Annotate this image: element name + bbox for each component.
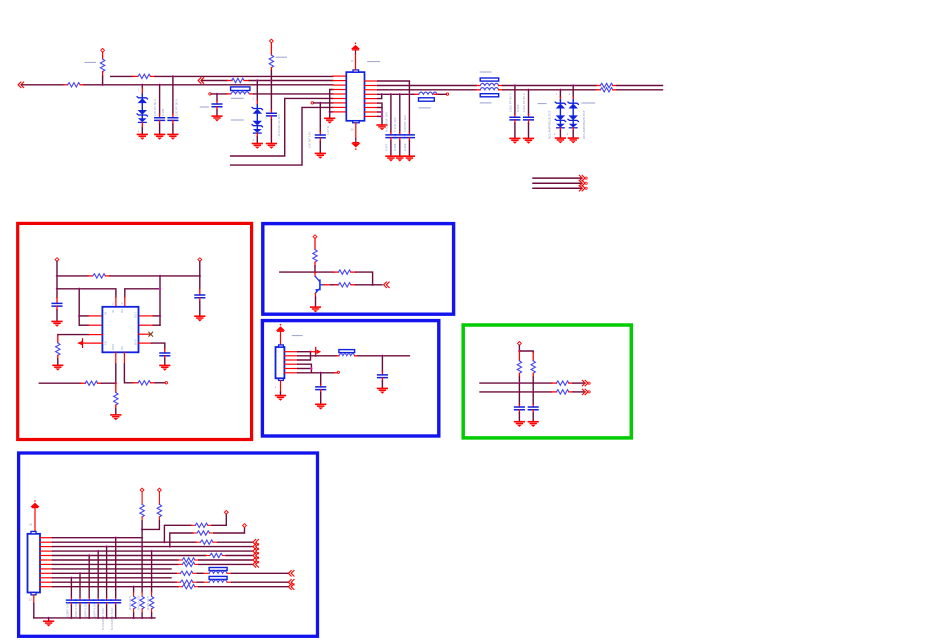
wire row5 to IC [254,93,333,95]
wire U2 bottom pin FB [123,352,125,364]
highlight box blue 3 [19,453,318,636]
node VIN a [56,275,58,277]
svg-text:RCLAMP0502B.TCT: RCLAMP0502B.TCT [582,110,586,139]
wire right vertical net [159,276,161,325]
wire main bus to IC [84,84,333,86]
wire bottom net left [39,382,81,384]
wire bottom ground bus [34,617,155,619]
svg-text:2: 2 [567,132,569,136]
svg-text:20: 20 [351,128,355,132]
ground C17 [528,421,539,427]
power symbol down GND arrow [351,142,360,150]
svg-text:0.1UF 16V: 0.1UF 16V [393,116,397,132]
label dash D4 [582,102,594,104]
highlight box blue 2 [262,321,438,436]
capacitor C14 [381,356,383,372]
svg-text:N.C/100NF 5.0V: N.C/100NF 5.0V [110,608,114,630]
svg-text:C403: C403 [516,104,520,112]
svg-text:N.C/100NF 5.0V: N.C/100NF 5.0V [101,608,105,630]
capacitor C11 (input) [56,298,58,304]
common-mode choke T1 [480,78,499,81]
ground C9 [509,138,520,144]
label dash R5 [276,56,287,58]
wire second row to IC [155,75,332,77]
wire pin6 [298,372,335,374]
svg-text:GND: GND [111,344,115,350]
svg-text:IN: IN [111,310,115,313]
resistor R27 (row11 series) [176,581,180,583]
off-page connector row11 [288,579,294,585]
svg-text:100 PF 50 V: 100 PF 50 V [153,98,157,116]
svg-text:1000PF 16V: 1000PF 16V [403,114,407,132]
svg-text:2: 2 [112,301,114,305]
svg-text:1: 1 [138,87,140,91]
svg-text:N.C/100 uF 50V: N.C/100 uF 50V [277,113,281,136]
op-amp U2 body [102,307,138,353]
wire row5 [53,555,206,557]
wire U2 top pin8 red [124,297,126,307]
resistor R3 (series, second row) [133,75,138,77]
resistor R23 (row5 series) [206,555,210,557]
wire SDA out [573,391,585,393]
ground C11 [51,321,62,327]
wire bus lower to choke [378,89,476,91]
ground C2 [167,134,178,140]
ground C1 [154,134,165,140]
svg-text:RCLAMP0502B.TCT: RCLAMP0502B.TCT [548,110,552,139]
svg-text:C105: C105 [161,108,165,116]
node pin1 [309,351,311,353]
svg-text:N.C/10UF 16V: N.C/10UF 16V [384,111,388,132]
off-page connector row4 [253,548,259,554]
off-page connector row3 [198,78,204,84]
wire top net [57,275,88,277]
resistor R2 (pull-up, vertical) [101,48,105,52]
power symbol J2 [30,500,39,508]
wire emitter [315,293,317,297]
node right vert a [159,288,161,290]
capacitor C3 (bulk) [270,110,272,113]
node SDA [532,391,534,393]
power symbol VCC [351,43,360,51]
svg-text:100 NF 16V: 100 NF 16V [308,131,312,148]
wire pullup vertical [141,529,143,592]
wire after FB1 [439,93,447,95]
capacitor C12 (output) [199,289,201,295]
power pin diamond Q net [313,235,317,239]
wire stub out 2 [533,182,582,184]
wire collector bus [280,271,334,273]
node GND net [115,382,117,384]
svg-text:EN: EN [104,341,108,345]
wire row1 [53,537,143,539]
off-page connector SCL [582,380,590,386]
pin end node pin6 [334,372,337,374]
off-page connector base [384,282,390,288]
ground C15 [315,404,326,410]
resistor R33 (network c) [151,551,153,592]
resistor R32 (network b) [133,587,135,592]
label dash FB1 [419,107,430,109]
wire base net out [356,284,382,286]
pin end node row5 [209,93,211,95]
capacitor C23 [70,578,72,598]
IC U1 ground pin 20 [355,123,357,139]
wire row7 [314,102,333,104]
svg-text:OUT: OUT [120,307,124,313]
resistor R29 (network a) [141,592,143,596]
TVS diode D2 [256,81,258,101]
off-page connector out 1 [579,175,587,181]
svg-text:220PF 5.0V: 220PF 5.0V [66,602,70,618]
off-page connector out 2 [579,180,587,186]
svg-text:C408: C408 [393,143,397,151]
capacitor C8 [408,94,410,132]
capacitor C22 [79,573,81,597]
wire row7 [53,563,179,565]
wire row3 [202,80,227,82]
resistor R4 (series row3) [227,80,232,82]
svg-text:100 PF 50 V: 100 PF 50 V [175,98,179,116]
capacitor C7 [399,94,401,132]
resistor R15 (base series) [335,284,339,286]
wire U2 left pin stubs [79,315,89,317]
svg-text:1: 1 [253,97,255,101]
wire IN pin2 bend [57,289,116,297]
svg-text:2: 2 [253,138,255,142]
ground C12 [194,315,205,321]
power pin VIN diamond [55,258,59,262]
wire stub out 3 [533,187,582,189]
off-page connector out 3 [579,185,587,191]
node C5 top [319,102,321,104]
wire VIN vertical [56,261,58,297]
wire bus lower after choke [503,89,596,91]
wire row12 [53,586,179,588]
wire pin2 to bead [298,355,337,357]
resistor R11 (bottom series) [81,382,86,384]
ferrite bead FB1 [415,93,419,95]
power pin diamond B [243,524,247,528]
label dash L1 a [231,97,243,99]
wire U2 bottom pin GND [115,352,117,364]
resistor R22 (row2 series) [196,541,200,543]
label dash U1 power [368,61,380,63]
highlight box red [18,223,252,439]
wire row4 gnd stub [330,90,333,118]
pin end node row7 [311,102,313,104]
ground C13 [159,365,170,371]
resistor R9 (EN pulldown) [57,336,59,343]
node left branch [78,288,80,290]
ground Q1 emitter [310,306,321,312]
connector J1 body [276,347,285,378]
svg-text:24: 24 [29,523,33,527]
svg-text:0.47 R: 0.47 R [326,125,330,135]
capacitor C10 [528,90,530,115]
svg-text:20PF 5.0V: 20PF 5.0V [92,603,96,617]
label dash T1 top [480,71,491,73]
TVS diode D3 [559,90,561,97]
resistor R28 (row12 series) [178,586,182,588]
label dash J1 [292,335,302,337]
wire upper bus end [617,85,663,87]
node row4 d [408,93,410,95]
wire row7 stub [378,107,382,109]
wire row9 stub [330,111,333,113]
wire net B (IC pin8 loop) [231,107,333,165]
capacitor C1 [158,84,160,86]
wire VOUT vertical [199,261,201,289]
wire EN corner [58,335,89,336]
wire R17 lower [532,392,534,405]
port arrow right [311,351,315,353]
ground R12 [110,414,121,420]
wire pin1-pin3 tie [298,352,311,360]
resistor R17 (pull-up 2) [532,353,534,361]
ground C8 [404,155,415,161]
svg-text:2: 2 [138,129,140,133]
ground C3 [266,143,277,149]
capacitor C13 (bypass) [164,349,166,353]
ground left of IC [324,118,335,124]
ground D1 [137,134,148,140]
wire base to resistor [331,284,339,286]
resistor R30 (branch A) [191,524,195,526]
node C9 [514,84,516,86]
svg-text:13: 13 [29,598,33,602]
wire branch A [164,525,191,542]
capacitor C17 [532,405,534,408]
ground R9 [52,365,63,371]
label dash C4 [200,106,208,108]
IC U1 power pin 8 [355,50,357,54]
wire row3 to IC [249,80,333,82]
capacitor C20 [97,551,99,597]
ferrite bead FB2 (row9) [203,572,209,574]
port arrow left (bypass) [82,339,84,348]
wire row11 [53,581,177,583]
label dash R2 [85,61,96,63]
node power [518,350,520,352]
wire row4 [53,550,253,552]
wire U2 right pin stubs [153,315,160,317]
capacitor C18 [115,538,117,598]
capacitor C15 [320,373,322,384]
wire row9 [53,572,177,574]
highlight box green [463,325,631,438]
wire R21 to join [142,521,159,530]
ferrite bead FB3 (row11) [203,581,209,583]
node R5 bottom [270,79,272,81]
wire pin1 [298,351,311,353]
capacitor C21 [88,556,90,598]
inductor L2 (ferrite bead) [336,355,339,357]
svg-text:R423 22.5: R423 22.5 [146,596,150,610]
node pins45 [310,367,312,369]
off-page connector row9 [288,571,294,577]
svg-text:R422 22.5: R422 22.5 [128,596,132,610]
node ground [47,617,49,619]
resistor R21 (pull-up b) [158,488,162,492]
ground D4 [568,137,579,143]
svg-text:1: 1 [275,385,277,389]
wire R16 lower [518,383,520,404]
svg-text:1: 1 [568,92,570,96]
resistor R24 (row6 series) [178,559,182,561]
wire OUT pin bend [125,289,160,297]
wire right row1 bend [378,81,410,94]
no-connect X pin [139,333,150,335]
capacitor C5 [319,103,321,132]
svg-text:OUT: OUT [134,312,138,318]
connector J1 pins [284,352,297,373]
wire J1 ground pin [280,380,282,392]
node row8 [381,111,383,113]
off-page connector row7 [253,562,259,568]
capacitor C9 [514,86,516,115]
power pin VOUT diamond [198,258,202,262]
wire U2 top pin2 red [115,297,117,307]
wire pins 4-5 tie [298,364,312,373]
wire SCL out [573,382,585,384]
ground C10 [523,138,534,144]
wire row5 tie [378,94,382,98]
node C14 [381,355,383,357]
ground C14 [377,388,388,394]
wire row3 [53,546,253,548]
off-page connector row2 [253,539,259,545]
capacitor C16 [518,405,520,408]
node D4 [572,84,574,86]
TVS diode D1 [141,84,143,86]
resistor R1 (series, main bus) [64,84,68,86]
node D3 [559,89,561,91]
IC U1 pins right [365,81,378,116]
label dash T1 bottom [480,102,491,104]
wire to R17 [519,351,533,353]
power symbol J1 [276,324,285,332]
node row4 c [399,93,401,95]
svg-text:IN: IN [104,312,108,315]
label dash L1 b [231,119,243,121]
resistor R6 (series upper bus) [596,85,600,87]
TVS diode D4 [572,86,574,98]
node cap out [199,275,201,277]
resistor R20 (pull-up a) [140,488,144,492]
svg-text:2: 2 [554,132,556,136]
capacitor C4 [216,94,218,101]
wire row6 [53,559,179,561]
wire row9 stub [378,115,382,117]
svg-text:C407: C407 [384,143,388,151]
ground J1 [275,395,286,401]
svg-text:1: 1 [556,92,558,96]
node base net [371,284,373,286]
wire after L2 [358,355,410,357]
svg-text:8: 8 [121,301,123,305]
svg-text:NC: NC [120,346,124,350]
off-page connector row6 [253,557,259,563]
capacitor C6 [390,94,392,132]
wire stub out 1 [533,177,582,179]
ground C4 [211,115,222,121]
svg-text:1000 PF 50 V: 1000 PF 50 V [509,92,513,112]
wire bus upper after choke [503,85,596,87]
node left vert [78,315,80,317]
node right vert b [159,315,161,317]
wire bus upper to choke [378,85,476,87]
resistor R16 (pull-up 1) [518,351,520,361]
node row9 [381,115,383,117]
resistor R18 (SCL series) [552,382,557,384]
highlight box blue 1 [263,224,454,315]
ground C16 [514,421,525,427]
wire BYP right [139,342,152,344]
svg-text:C409: C409 [403,143,407,151]
capacitor C19 [106,547,108,598]
ground C5 [315,153,326,159]
node C4 top [216,93,218,95]
off-page connector row5 [253,553,259,559]
ground C6 [385,155,396,161]
ground C7 [394,155,405,161]
wire J2 bottom pin [33,595,35,604]
label dash caps [538,103,546,105]
node junction R2 bottom [101,84,103,86]
svg-text:R421A 100: R421A 100 [136,595,140,610]
svg-text:8: 8 [351,59,353,63]
resistor R26 (row9 series) [176,572,180,574]
off-page connector SDA [582,389,590,395]
ground D3 [555,137,566,143]
wire row2 [53,541,197,543]
wire SDA bus [480,391,552,393]
ground J2 [48,618,50,621]
ground right of IC [376,124,387,130]
resistor R7 (series lower bus) [596,89,600,91]
resistor R10 (FB series) [133,382,138,384]
label dash R6 R7 [590,102,595,104]
power pin diamond I2C [518,342,522,346]
resistor R14 (upper series) [334,271,339,273]
wire SCL bus [480,382,552,384]
node VIN b [56,288,58,290]
resistor R31 (branch B) [193,532,197,534]
node collector [314,271,316,273]
wire main bus left [22,84,64,86]
wire lower bus end [617,89,663,91]
node row4 b [390,93,392,95]
resistor R12 (vertical to gnd) [115,383,117,392]
IC U1 body [346,72,364,121]
wire power tee [518,345,520,351]
node row4 a [381,93,383,95]
power pin diamond A [224,510,228,514]
resistor R13 (pull-up vertical) [314,239,316,250]
IC U1 pins left [333,76,347,112]
svg-text:1000 PF 50 V: 1000 PF 50 V [522,92,526,112]
capacitor C2 [172,76,174,114]
wire row10 [53,577,172,579]
wire gnd vertical right of IC [378,103,382,124]
off-page connector row12 [288,584,294,590]
wire top net right [110,275,200,277]
transistor Q1 [314,272,316,276]
wire FB out [155,382,165,384]
wire left vertical net [78,289,80,325]
node out tie [159,275,161,277]
